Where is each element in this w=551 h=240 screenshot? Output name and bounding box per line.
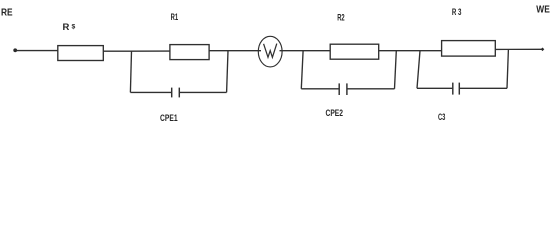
svg-text:CPE1: CPE1 xyxy=(160,113,178,124)
svg-text:R2: R2 xyxy=(337,13,345,23)
svg-text:R 3: R 3 xyxy=(452,7,462,17)
svg-text:R: R xyxy=(63,22,70,33)
svg-text:R1: R1 xyxy=(171,12,179,22)
svg-text:$: $ xyxy=(72,23,76,30)
svg-text:WE: WE xyxy=(536,5,550,16)
svg-text:RE: RE xyxy=(1,8,13,19)
svg-text:CPE2: CPE2 xyxy=(326,108,344,119)
svg-text:C3: C3 xyxy=(438,112,445,123)
